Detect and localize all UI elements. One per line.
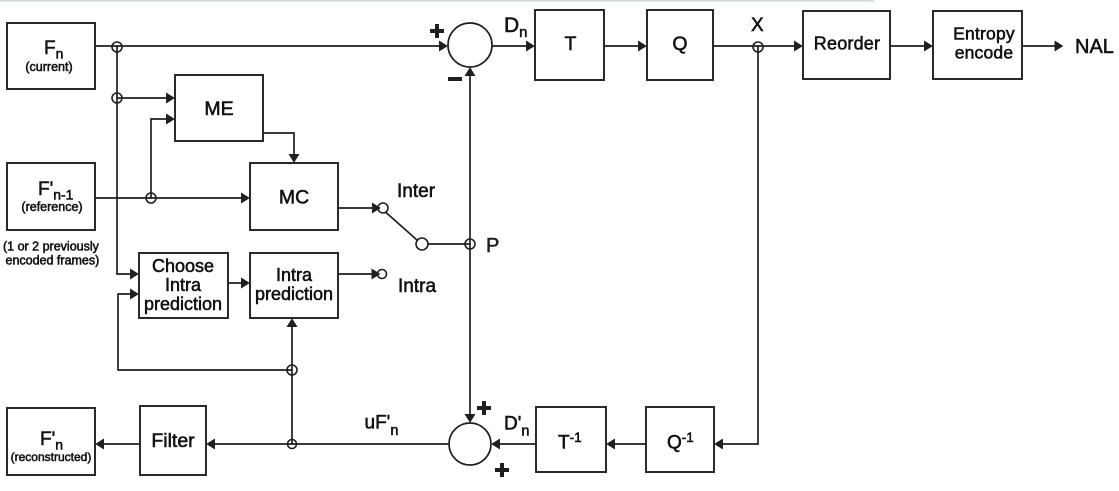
node P bbox=[465, 239, 475, 249]
node Intra contact bbox=[378, 270, 387, 279]
label minus top adder bbox=[448, 77, 462, 81]
wire P up to summing junction minus input bbox=[469, 69, 471, 245]
node X tap bbox=[753, 42, 763, 52]
svg-text:Reorder: Reorder bbox=[814, 34, 880, 54]
svg-text:(current): (current) bbox=[25, 60, 72, 74]
box MC bbox=[250, 163, 338, 230]
box Q bbox=[647, 10, 713, 80]
svg-text:encoded frames): encoded frames) bbox=[6, 254, 100, 268]
svg-text:prediction: prediction bbox=[144, 294, 222, 314]
svg-text:P: P bbox=[486, 235, 499, 257]
svg-text:Inter: Inter bbox=[397, 181, 436, 202]
node uF'n tap bbox=[288, 440, 297, 449]
node switch pivot bbox=[416, 238, 428, 250]
svg-text:Intra: Intra bbox=[276, 265, 313, 285]
wire T to Q bbox=[604, 45, 646, 47]
wire Q-1 to T-1 bbox=[608, 443, 647, 445]
svg-text:(reconstructed): (reconstructed) bbox=[11, 450, 92, 464]
node tap on Fn wire bbox=[112, 42, 122, 52]
wire pivot to node P bbox=[428, 243, 470, 245]
cropped header bar remnant bbox=[0, 0, 874, 1]
wire ME output to MC top bbox=[263, 133, 294, 162]
node Inter contact bbox=[378, 203, 388, 213]
wire Choose Intra prediction to Intra prediction bbox=[228, 282, 249, 284]
label plus top adder bbox=[430, 24, 444, 38]
box F'n-1 reference bbox=[7, 163, 95, 230]
svg-text:Filter: Filter bbox=[151, 430, 195, 452]
box Entropy encode bbox=[933, 11, 1022, 79]
svg-text:(reference): (reference) bbox=[21, 200, 82, 214]
wire vertical from Fn tap down to Choose Intra input bbox=[117, 46, 138, 274]
wire junction up to ME lower input bbox=[151, 119, 174, 198]
box Choose Intra prediction bbox=[139, 253, 228, 318]
wire adder to Filter bbox=[208, 443, 450, 445]
switch arm bbox=[386, 213, 417, 241]
svg-text:(1 or 2 previously: (1 or 2 previously bbox=[3, 240, 100, 254]
svg-text:uF'n: uF'n bbox=[365, 413, 399, 440]
box Q inverse bbox=[646, 407, 714, 472]
summing junction U1 bbox=[448, 23, 492, 67]
svg-text:Q: Q bbox=[672, 33, 687, 55]
wire Filter to F'n bbox=[97, 443, 141, 445]
box T bbox=[535, 10, 604, 80]
svg-text:X: X bbox=[751, 15, 764, 36]
wire T-1 to adder bbox=[493, 443, 537, 445]
svg-text:Intra: Intra bbox=[398, 276, 436, 297]
wire uF'n tap up to Intra prediction bottom bbox=[291, 320, 293, 445]
wire tap to ME upper input bbox=[117, 97, 174, 99]
box Reorder bbox=[803, 11, 890, 79]
node junction on F'n-1 wire bbox=[146, 193, 156, 203]
svg-text:Entropy: Entropy bbox=[953, 24, 1015, 44]
box ME bbox=[175, 75, 263, 141]
wire X down to Q-1 bbox=[716, 46, 759, 444]
svg-text:prediction: prediction bbox=[255, 284, 333, 304]
box T inverse bbox=[536, 407, 606, 472]
box F'n reconstructed bbox=[7, 408, 95, 475]
svg-text:ME: ME bbox=[204, 98, 233, 120]
reconstruction adder bbox=[449, 423, 491, 465]
label plus adder bottom bbox=[495, 463, 509, 477]
svg-text:D'n: D'n bbox=[504, 414, 529, 440]
wire MC output to Inter contact bbox=[338, 207, 380, 209]
wire Q to Reorder through node X bbox=[713, 45, 802, 47]
box Intra prediction bbox=[250, 253, 338, 318]
node junction on feedback vertical bbox=[287, 365, 297, 375]
wire Entropy encode to NAL bbox=[1022, 45, 1062, 47]
wire Fn to summing junction bbox=[95, 45, 447, 47]
svg-text:MC: MC bbox=[279, 187, 309, 209]
wire Intra prediction output to Intra contact bbox=[338, 273, 379, 275]
svg-text:NAL: NAL bbox=[1075, 36, 1114, 58]
wire junction to Choose Intra lower input bbox=[118, 294, 292, 370]
box Filter bbox=[140, 406, 206, 475]
wire Reorder to Entropy encode bbox=[890, 45, 932, 47]
node tap to ME bbox=[112, 93, 122, 103]
svg-text:Choose: Choose bbox=[152, 256, 214, 276]
svg-text:Dn: Dn bbox=[504, 14, 528, 41]
wire P down to reconstruction adder plus input bbox=[469, 244, 471, 422]
box Fn current bbox=[7, 23, 95, 89]
svg-text:T: T bbox=[565, 33, 577, 55]
svg-text:Intra: Intra bbox=[165, 275, 202, 295]
label plus adder top bbox=[477, 401, 491, 415]
wire F'n-1 to MC bbox=[95, 197, 249, 199]
wire summing junction to T bbox=[492, 45, 534, 47]
svg-text:encode: encode bbox=[955, 43, 1014, 63]
